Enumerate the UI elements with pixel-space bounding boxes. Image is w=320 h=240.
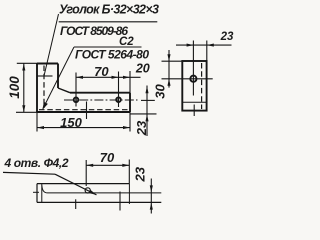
hole 1 <box>74 98 79 103</box>
dim 23 top arrow right <box>187 44 194 47</box>
bottom view right edge <box>128 184 130 204</box>
projection line <box>86 102 88 120</box>
base top edge <box>70 92 130 94</box>
dim 23 top line <box>176 44 232 46</box>
bottom view top edge <box>37 183 129 185</box>
leg hidden line <box>43 66 45 109</box>
bottom view bend tick <box>33 191 39 193</box>
dim 150 line <box>37 127 130 129</box>
holes leader line <box>55 174 97 195</box>
dim 70 bottom right extension <box>128 160 130 184</box>
leg left edge <box>36 64 38 113</box>
svg-text:100: 100 <box>7 76 22 99</box>
side top extension <box>162 60 183 62</box>
dim 30 extension tick <box>141 99 155 101</box>
dim 100 arrow up <box>22 64 25 71</box>
dim 20 arrow <box>123 76 130 79</box>
dim 150 right extension <box>129 112 131 132</box>
dim 23 extension tick <box>130 113 157 115</box>
hole 2 axis tick bottom view <box>119 192 121 211</box>
weld shelf <box>74 46 142 48</box>
side hole vertical axis <box>192 41 194 96</box>
bottom view left inner edge <box>41 184 43 203</box>
fraction bar <box>59 21 158 23</box>
bottom view bottom edge with extension <box>37 201 161 203</box>
dim 150 left extension <box>36 112 38 132</box>
dim 150 arrow left <box>37 126 44 129</box>
bottom view hole <box>85 188 90 193</box>
svg-text:С2: С2 <box>119 36 134 48</box>
side view hole <box>190 76 196 82</box>
bottom view inner line with extension <box>42 186 161 193</box>
material leader line <box>44 14 59 76</box>
weld leader line <box>43 47 74 109</box>
dim 30-23 shared line <box>146 86 148 137</box>
dim 23 bottom arrow up <box>150 203 153 210</box>
leg right edge <box>57 64 59 89</box>
dim 70 bottom line <box>86 164 129 166</box>
dim 70 arrow right <box>112 76 119 79</box>
dim 30 side arrow down <box>167 79 170 86</box>
dim 100 line <box>23 64 25 113</box>
dim 23 bottom line <box>150 179 152 214</box>
svg-text:70: 70 <box>94 64 109 79</box>
holes center line <box>64 99 138 101</box>
svg-text:70: 70 <box>100 150 115 165</box>
dim 23 arrow <box>145 114 148 121</box>
dim 70 bottom arrow right <box>122 164 129 167</box>
hole 1 axis tick bottom view <box>75 199 77 209</box>
dim 150 arrow right <box>123 126 130 129</box>
side hole horizontal axis <box>162 78 213 80</box>
dim 23 bottom arrow down <box>150 185 153 192</box>
dim 100 top extension <box>17 62 37 64</box>
right edge extension up <box>129 71 131 93</box>
svg-text:23: 23 <box>133 166 148 182</box>
dim 100 arrow down <box>22 105 25 112</box>
hole 2 axis <box>118 72 120 108</box>
dim 23 top arrow left <box>207 44 214 47</box>
side view hidden line <box>201 63 203 109</box>
base hidden line <box>39 109 130 111</box>
svg-text:4 отв. Ф4,2: 4 отв. Ф4,2 <box>4 156 69 170</box>
base bottom edge <box>37 111 130 113</box>
side view outline <box>182 61 206 111</box>
leg corner chamfer <box>58 88 70 93</box>
base right edge <box>129 93 131 112</box>
bottom view left edge <box>36 184 38 203</box>
svg-text:23: 23 <box>220 31 234 43</box>
leg top edge <box>37 63 58 65</box>
dim 23 top right extension <box>206 41 208 61</box>
bottom hole axis <box>85 160 87 186</box>
svg-text:23: 23 <box>134 120 149 136</box>
dim 70 bottom arrow left <box>86 164 93 167</box>
dim 100 bottom extension <box>16 111 37 113</box>
weld leader arrowhead <box>42 102 48 110</box>
dim 30 side line <box>168 50 170 88</box>
svg-text:150: 150 <box>60 115 82 130</box>
svg-text:20: 20 <box>135 61 150 75</box>
side hole axis bottom tick <box>193 105 195 117</box>
hole 2 <box>116 97 121 102</box>
svg-text:Уголок Б·32×32×3: Уголок Б·32×32×3 <box>59 3 159 17</box>
side view inner line <box>183 101 206 103</box>
dim 30 side arrow up <box>167 54 170 61</box>
material leader tick <box>37 75 53 77</box>
dim 70 arrow left <box>76 76 83 79</box>
hole 1 axis <box>75 73 77 107</box>
holes label underline <box>3 172 55 174</box>
dim 70-20 line <box>76 76 141 78</box>
holes leader arrowhead <box>88 190 96 195</box>
dim 30 arrow <box>145 86 148 93</box>
svg-text:30: 30 <box>152 84 167 99</box>
svg-text:ГОСТ 5264-80: ГОСТ 5264-80 <box>75 48 149 62</box>
